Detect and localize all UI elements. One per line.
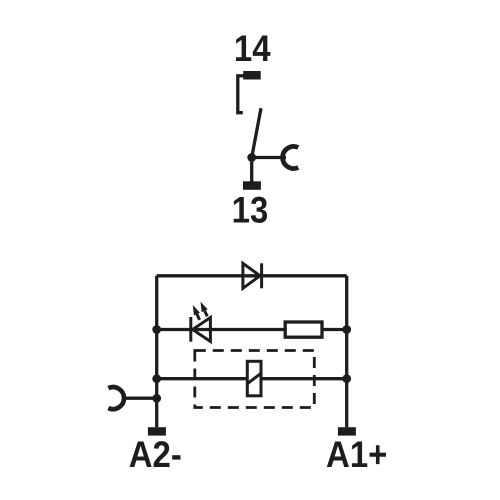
LED emission arrow 1 (193, 305, 200, 320)
node: dot wire2 right (342, 325, 351, 334)
node: dot wire2 left (152, 325, 161, 334)
svg-text:13: 13 (232, 190, 269, 231)
diode V1 (freewheeling, pointing right) (243, 263, 262, 288)
svg-text:A1+: A1+ (326, 434, 387, 475)
plug-in connector symbol (top, opens right) (283, 147, 299, 169)
LED indicator (pointing left) (191, 317, 211, 342)
svg-text:14: 14 (234, 28, 271, 69)
wire down to terminal 13 (250, 158, 253, 182)
dashed relay outline box (195, 351, 314, 408)
terminal 14 (243, 71, 261, 80)
wire from junction to plug connector (252, 156, 286, 159)
node: dot plug junction left (152, 394, 161, 403)
label A2- (129, 434, 182, 475)
LED emission arrow 2 (201, 302, 208, 317)
wire: top horizontal with corners (157, 274, 347, 277)
wire: middle horizontal (LED + resistor branch) (157, 328, 347, 331)
node: junction dot at contact common (247, 153, 256, 162)
wire: right vertical rail (A1) (345, 276, 348, 427)
terminal A2 (148, 427, 166, 435)
svg-text:A2-: A2- (129, 434, 182, 475)
label 13 (232, 190, 269, 231)
wire: left vertical rail (A2) (155, 276, 158, 427)
terminal A1 (338, 427, 356, 435)
resistor R1 (285, 322, 322, 337)
terminal 13 (243, 181, 261, 190)
label A1+ (326, 434, 387, 475)
node: dot wire3 right (342, 374, 351, 383)
wire: lower horizontal (coil branch) (157, 377, 347, 380)
fixed contact bracket of switch (238, 76, 245, 113)
node: dot wire3 left (152, 374, 161, 383)
wire from plug connector to left rail (122, 397, 157, 400)
relay coil K1 (247, 361, 261, 396)
switch lever (contact 13-14) (252, 108, 261, 157)
label 14 (234, 28, 271, 69)
plug-in connector symbol (bottom, opens left) (108, 387, 124, 409)
